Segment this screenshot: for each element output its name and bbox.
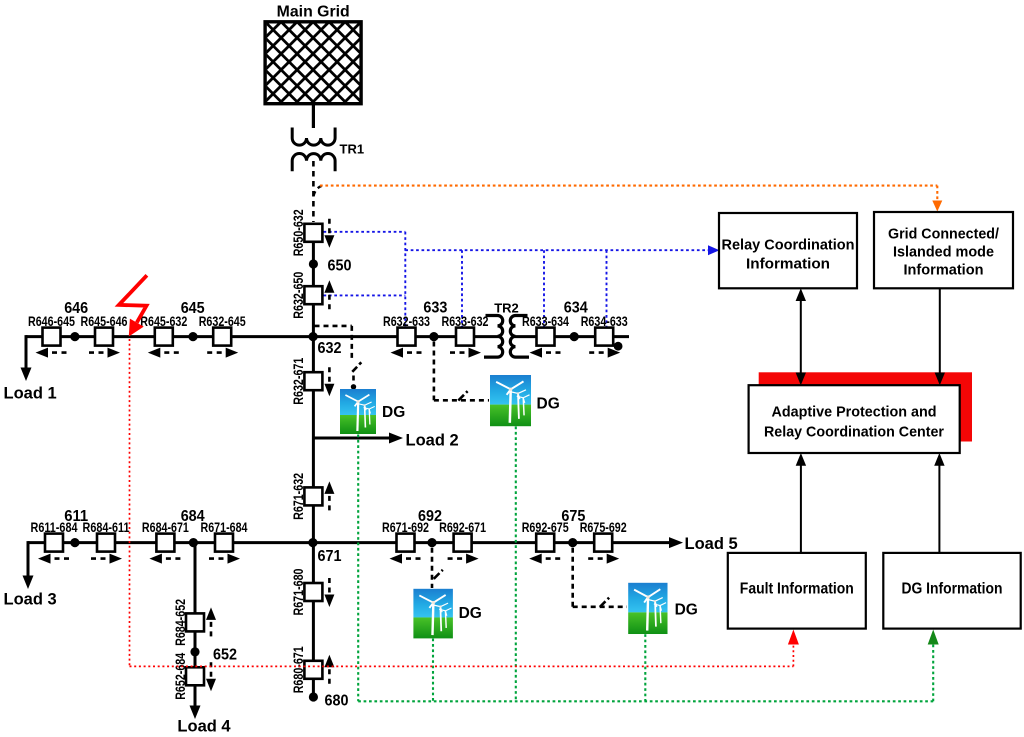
svg-text:Load 4: Load 4 <box>177 718 231 736</box>
node 633 <box>429 332 438 341</box>
box DG Information <box>883 553 1020 629</box>
relay R684-611 <box>83 519 130 564</box>
wire top feeder left section <box>26 335 500 338</box>
svg-text:611: 611 <box>64 508 88 525</box>
relay R684-671 <box>142 519 189 564</box>
relay R632-650 <box>290 272 334 319</box>
relay R633-632 <box>442 313 489 358</box>
svg-text:R684-652: R684-652 <box>172 599 188 646</box>
svg-text:Islanded mode: Islanded mode <box>893 245 994 261</box>
red dotted link: fault information <box>130 339 799 666</box>
wire top feeder right section <box>513 335 629 338</box>
svg-text:650: 650 <box>328 258 352 275</box>
relay R632-645 <box>199 313 246 358</box>
node 611 <box>70 538 79 547</box>
relay R646-645 <box>28 313 75 358</box>
svg-text:632: 632 <box>318 340 342 357</box>
svg-text:Load 5: Load 5 <box>685 535 738 553</box>
arrow: fault information -> center <box>796 453 806 553</box>
svg-text:Load 2: Load 2 <box>406 431 459 449</box>
relay R634-633 <box>581 313 628 358</box>
svg-text:R633-634: R633-634 <box>522 313 569 329</box>
svg-text:Grid Connected/: Grid Connected/ <box>888 227 999 243</box>
relay R652-684 <box>172 653 216 700</box>
svg-text:R632-650: R632-650 <box>290 272 306 319</box>
relay R645-646 <box>81 313 128 358</box>
node 684 junction <box>189 538 198 547</box>
arrow: DG information -> center <box>934 453 944 553</box>
load 5 feeder arrow <box>669 537 683 548</box>
relay R633-634 <box>522 313 569 358</box>
load 1 feeder arrow <box>21 335 32 381</box>
relay R671-632 <box>290 473 334 520</box>
svg-text:Information: Information <box>746 257 830 273</box>
node 632 junction <box>309 332 318 341</box>
box Relay Coordination Information <box>719 213 857 288</box>
svg-text:R671-684: R671-684 <box>201 519 248 535</box>
relay R671-684 <box>201 519 248 564</box>
svg-text:TR2: TR2 <box>494 301 519 316</box>
dashed wire with switch: node 633 to DG2 <box>434 342 489 401</box>
svg-text:DG: DG <box>459 605 482 622</box>
svg-text:645: 645 <box>181 300 205 317</box>
svg-text:Relay Coordination Center: Relay Coordination Center <box>764 424 944 441</box>
dashed wire with switch: bus 632 to DG1 <box>315 326 362 390</box>
dashed wire TR1 to relay R650-632 <box>312 161 315 222</box>
svg-text:DG: DG <box>537 396 560 413</box>
svg-text:Relay Coordination: Relay Coordination <box>722 238 855 254</box>
node 671 junction <box>308 538 317 547</box>
svg-text:Main Grid: Main Grid <box>277 4 350 21</box>
svg-text:R671-680: R671-680 <box>290 568 306 615</box>
svg-text:DG: DG <box>382 404 405 421</box>
box Grid Connected / Islanded mode Information <box>874 212 1013 288</box>
relay R632-671 <box>290 358 334 405</box>
wire main grid to TR1 <box>312 104 315 128</box>
svg-text:DG: DG <box>675 602 698 619</box>
svg-text:680: 680 <box>325 693 349 710</box>
svg-text:R633-632: R633-632 <box>442 313 489 329</box>
svg-text:R632-671: R632-671 <box>290 358 306 405</box>
load 2 feeder arrow <box>313 433 403 444</box>
svg-text:646: 646 <box>64 300 88 317</box>
node 692 <box>427 538 436 547</box>
red shadow rectangle <box>759 372 972 441</box>
relay R671-692 <box>382 519 429 564</box>
relay R671-680 <box>290 568 334 615</box>
blue dotted link: relay coordination information <box>324 232 720 327</box>
svg-text:Fault Information: Fault Information <box>740 581 854 598</box>
svg-text:R680-671: R680-671 <box>290 646 306 693</box>
relay R650-632 <box>290 209 334 256</box>
svg-text:634: 634 <box>564 300 588 317</box>
svg-text:R675-692: R675-692 <box>580 519 627 535</box>
relay R645-632 <box>140 313 187 358</box>
node end of 634 segment <box>614 342 623 351</box>
svg-text:R692-671: R692-671 <box>439 519 486 535</box>
svg-text:684: 684 <box>181 508 205 525</box>
DG unit 1 (wind turbines) <box>340 389 376 434</box>
svg-text:Load 1: Load 1 <box>4 384 57 402</box>
svg-text:Adaptive Protection and: Adaptive Protection and <box>772 404 937 421</box>
svg-text:675: 675 <box>561 508 585 525</box>
DG unit 4 (wind turbines) <box>628 583 667 634</box>
svg-text:DG Information: DG Information <box>902 581 1003 598</box>
DG unit 3 (wind turbines) <box>413 589 452 639</box>
node 650 <box>309 259 318 268</box>
relay R632-633 <box>383 313 430 358</box>
relay R675-692 <box>580 519 627 564</box>
double arrow: relay coordination info <-> center <box>796 288 806 385</box>
svg-text:652: 652 <box>213 647 237 664</box>
node 646 <box>70 332 79 341</box>
wire bottom feeder <box>28 541 673 544</box>
svg-text:Load 3: Load 3 <box>4 591 57 609</box>
orange dotted link: grid mode information <box>320 186 942 212</box>
svg-text:R632-645: R632-645 <box>199 313 246 329</box>
transformer TR2 <box>484 316 529 358</box>
svg-text:692: 692 <box>418 508 442 525</box>
DG unit 2 (wind turbines) <box>490 375 531 426</box>
transformer TR1 <box>292 128 335 172</box>
node 680 <box>309 692 318 701</box>
svg-text:633: 633 <box>423 300 447 317</box>
box Adaptive Protection and Relay Coordination Center <box>749 385 960 453</box>
relay R692-671 <box>439 519 486 564</box>
wire 684-652 branch and load 4 arrow <box>190 543 201 719</box>
relay R611-684 <box>31 519 78 564</box>
load 3 feeder arrow <box>23 541 34 589</box>
dashed wire with switch: node 675 to DG4 <box>573 548 627 607</box>
relay R684-652 <box>172 599 216 646</box>
svg-text:R650-632: R650-632 <box>290 209 306 256</box>
svg-text:R671-632: R671-632 <box>290 473 306 520</box>
green dotted link: DG information <box>358 427 939 702</box>
node 634 <box>570 332 579 341</box>
box Fault Information <box>728 553 866 629</box>
arrow: grid mode info -> center <box>935 288 945 385</box>
fault lightning bolt <box>119 275 147 336</box>
svg-text:R652-684: R652-684 <box>172 653 188 700</box>
relay R692-675 <box>522 519 569 564</box>
svg-text:Information: Information <box>904 263 984 279</box>
svg-text:671: 671 <box>318 548 342 565</box>
relay R680-671 <box>290 646 334 693</box>
node 645 <box>188 332 197 341</box>
node 675 <box>568 538 577 547</box>
svg-text:R684-611: R684-611 <box>83 519 130 535</box>
node 652 <box>190 647 199 656</box>
main grid source symbol <box>87 22 539 104</box>
dashed wire with switch: node 692 to DG3 <box>432 548 443 588</box>
wire vertical bus 650-680 <box>312 241 315 697</box>
svg-text:TR1: TR1 <box>340 142 365 157</box>
